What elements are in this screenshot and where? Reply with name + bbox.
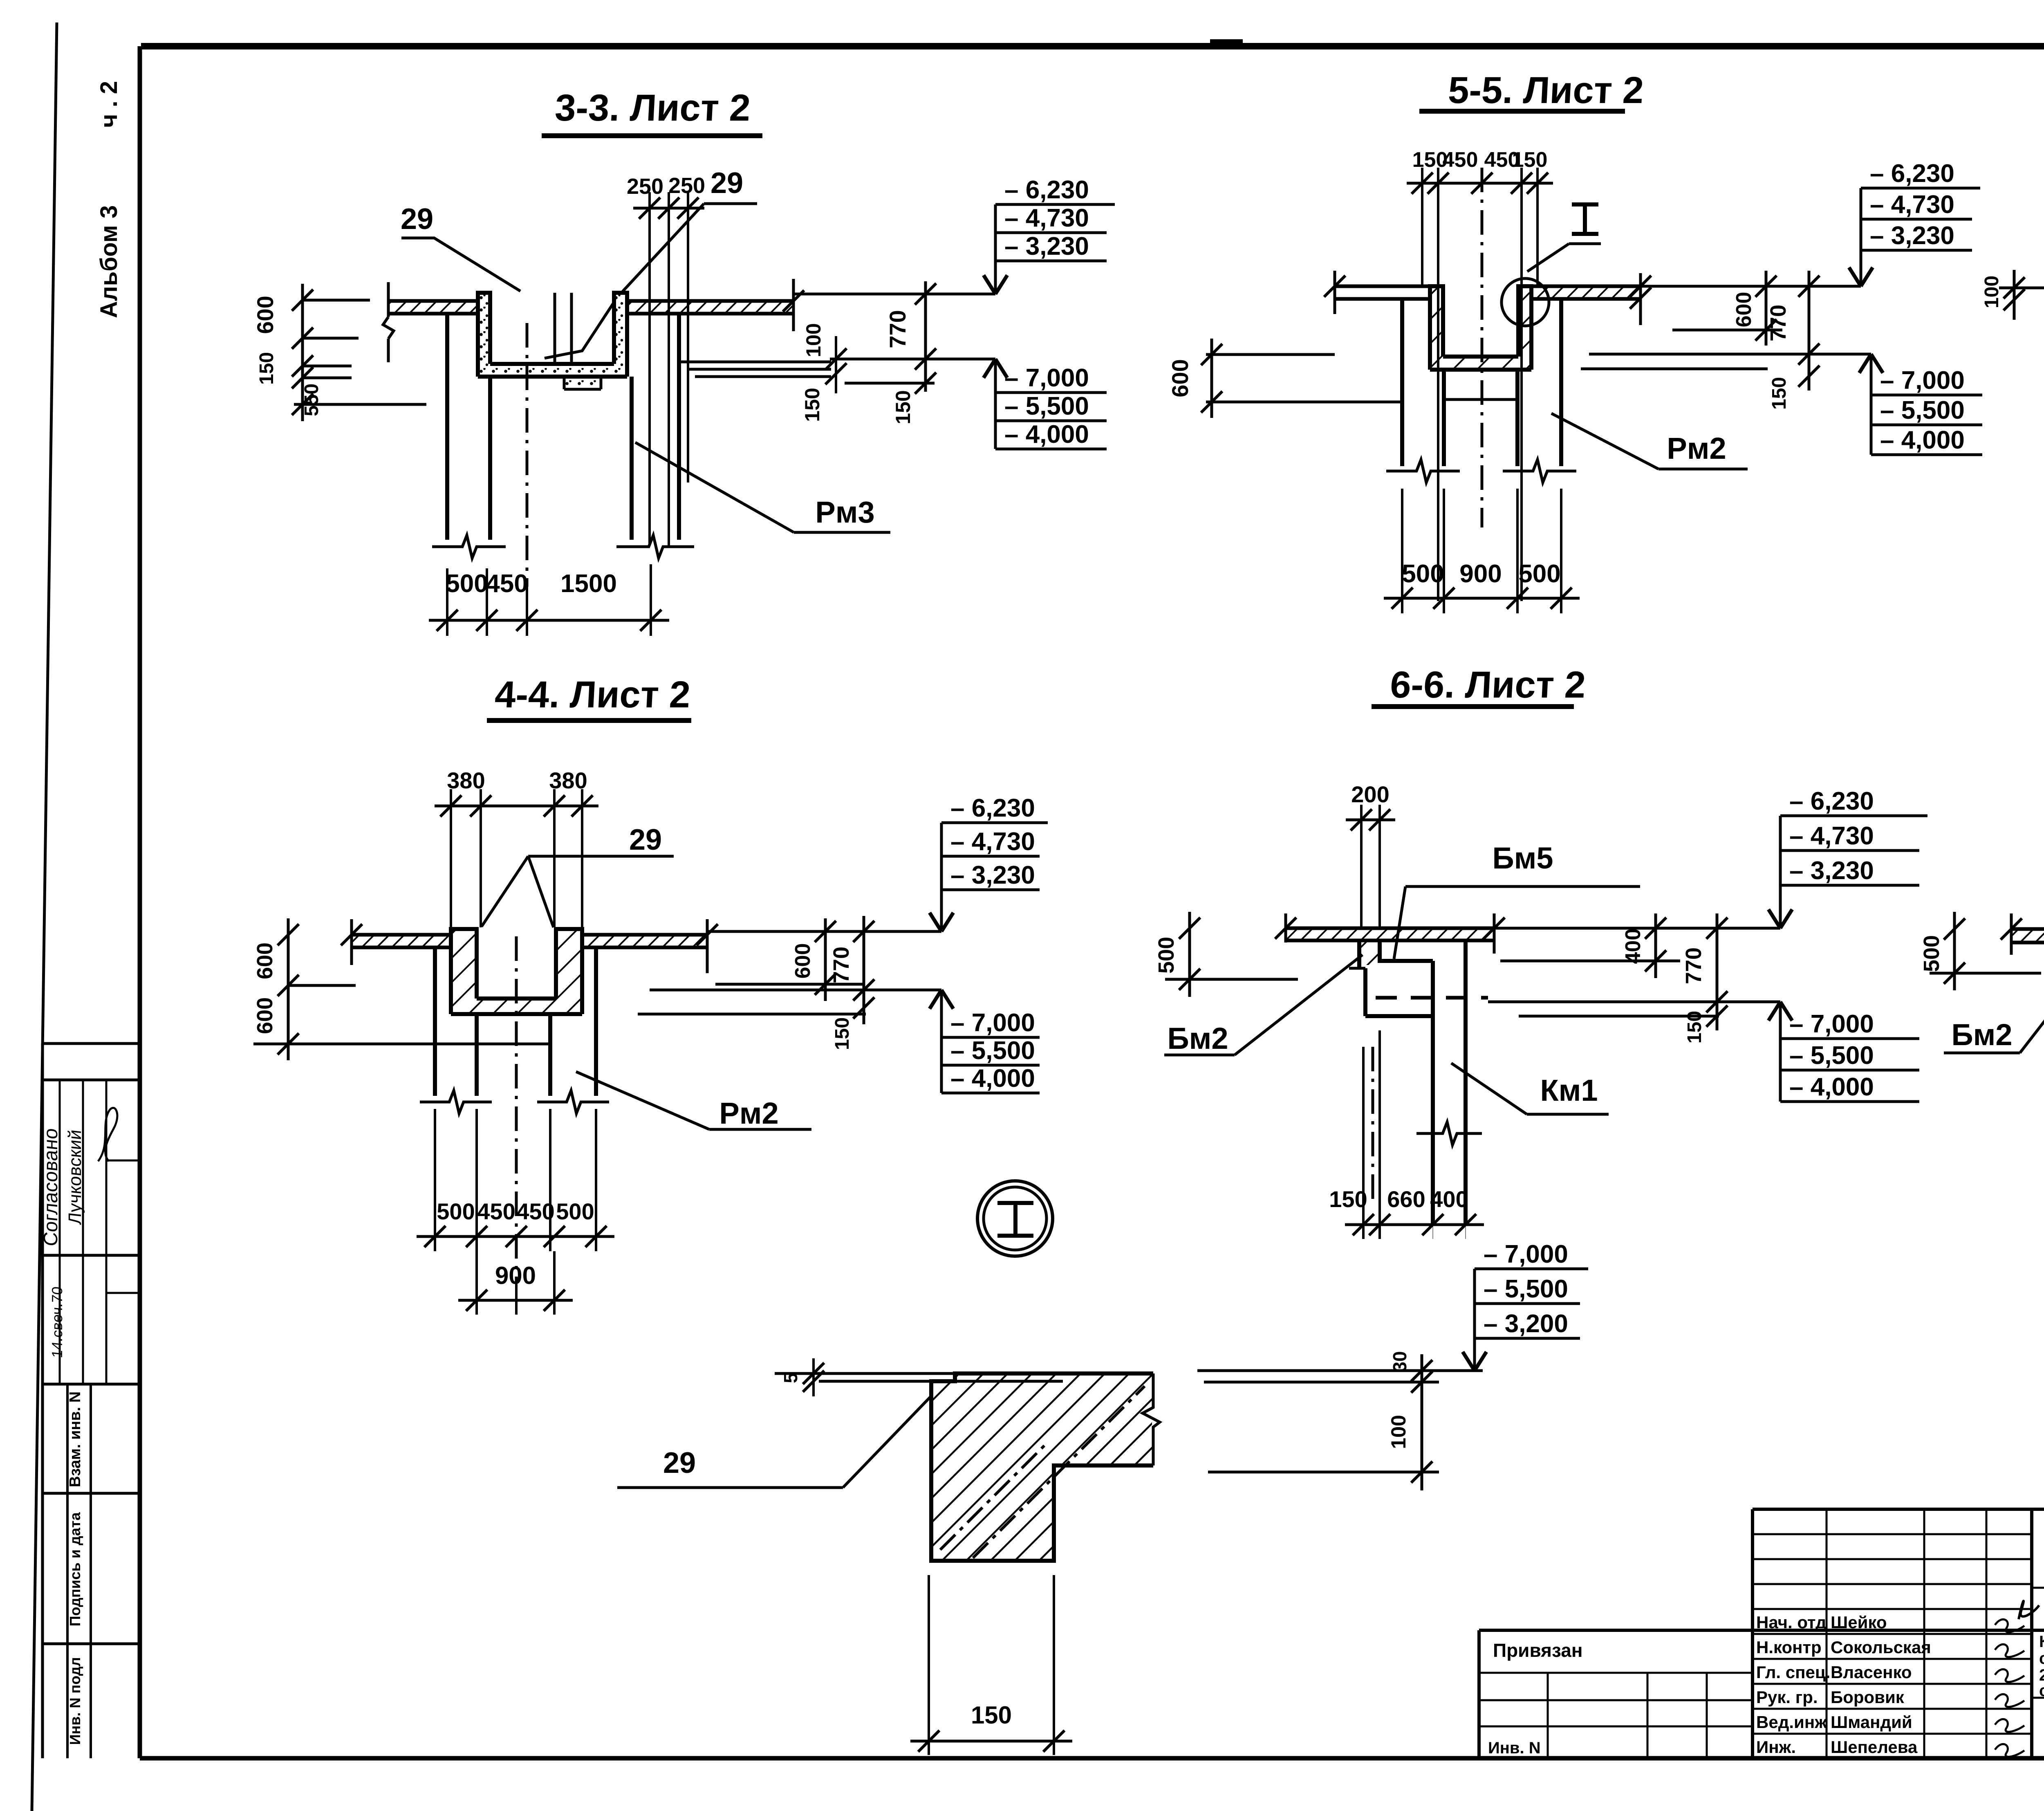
svg-text:Канализационная насосная: Канализационная насосная [2039,1633,2044,1651]
svg-text:550: 550 [301,384,323,416]
svg-text:100: 100 [1387,1415,1410,1449]
svg-text:Власенко: Власенко [1831,1663,1912,1682]
svg-text:– 5,500: – 5,500 [1484,1275,1568,1303]
svg-text:1500: 1500 [560,570,617,598]
svg-text:29: 29 [663,1447,696,1479]
svg-text:Взам. инв. N: Взам. инв. N [67,1391,84,1487]
svg-text:29: 29 [629,824,662,856]
svg-text:150: 150 [256,352,278,385]
svg-text:500: 500 [437,1198,475,1224]
svg-text:Шейко: Шейко [1831,1613,1887,1632]
svg-text:660: 660 [1387,1186,1425,1212]
svg-text:150: 150 [801,388,824,422]
svg-text:500: 500 [446,570,488,598]
svg-text:– 4,730: – 4,730 [1789,822,1874,850]
svg-text:– 4,730: – 4,730 [1004,204,1089,232]
svg-text:900: 900 [495,1262,536,1289]
svg-text:4-4. Лист 2: 4-4. Лист 2 [494,673,691,716]
svg-text:250: 250 [627,174,663,199]
svg-text:Бм2: Бм2 [1167,1021,1228,1055]
svg-text:станция производительностью: станция производительностью [2039,1649,2044,1667]
svg-text:– 3,230: – 3,230 [1789,857,1874,885]
svg-text:Шепелева: Шепелева [1831,1737,1918,1757]
svg-text:29: 29 [710,167,743,200]
svg-text:100: 100 [1981,276,2003,308]
svg-text:5: 5 [780,1373,801,1383]
svg-text:– 3,230: – 3,230 [1870,222,1954,250]
svg-text:150: 150 [1512,148,1548,172]
svg-text:– 5,500: – 5,500 [1004,392,1089,420]
svg-text:Согласовано: Согласовано [40,1127,62,1247]
svg-text:– 3,230: – 3,230 [1004,232,1089,260]
svg-text:Инв. N подл: Инв. N подл [67,1657,83,1745]
svg-text:– 7,000: – 7,000 [950,1009,1035,1037]
svg-text:– 7,000: – 7,000 [1484,1240,1568,1268]
svg-text:5-5. Лист 2: 5-5. Лист 2 [1447,69,1645,111]
svg-text:– 5,500: – 5,500 [1880,396,1965,424]
svg-text:– 4,000: – 4,000 [1880,426,1965,454]
svg-text:ч . 2: ч . 2 [96,81,122,128]
svg-text:500: 500 [1154,937,1179,974]
svg-text:400: 400 [1621,929,1645,964]
svg-text:– 4,000: – 4,000 [1004,420,1089,449]
svg-text:– 7,000: – 7,000 [1004,364,1089,392]
svg-text:600: 600 [253,943,277,979]
svg-text:600: 600 [1732,292,1756,328]
svg-text:– 6,230: – 6,230 [1789,787,1874,815]
svg-text:– 6,230: – 6,230 [1870,159,1954,188]
svg-text:Вед.инж: Вед.инж [1756,1712,1827,1732]
svg-text:Рм3: Рм3 [815,495,874,529]
svg-text:Инв. N: Инв. N [1488,1739,1541,1757]
svg-text:500: 500 [556,1198,594,1224]
svg-text:150: 150 [1768,377,1790,410]
svg-text:– 4,000: – 4,000 [1789,1073,1874,1101]
svg-text:500: 500 [1919,935,1944,972]
svg-text:Н.контр: Н.контр [1756,1638,1822,1657]
svg-text:Рук. гр.: Рук. гр. [1756,1688,1818,1707]
svg-text:– 5,500: – 5,500 [950,1037,1035,1065]
svg-text:Инж.: Инж. [1756,1737,1796,1757]
svg-text:500: 500 [1518,560,1560,588]
svg-text:150: 150 [1329,1186,1367,1212]
svg-text:Гл. спец.: Гл. спец. [1756,1663,1830,1682]
svg-text:14.свеч.70: 14.свеч.70 [49,1286,65,1359]
svg-text:450: 450 [1443,148,1478,172]
svg-text:200: 200 [1351,781,1389,807]
svg-text:Нач. отд: Нач. отд [1756,1613,1827,1632]
svg-text:450: 450 [486,570,528,598]
svg-text:– 7,000: – 7,000 [1880,366,1965,395]
svg-text:Подпись и дата: Подпись и дата [67,1512,83,1627]
svg-text:770: 770 [1681,947,1706,984]
svg-text:150: 150 [971,1701,1012,1729]
svg-text:600: 600 [1167,359,1193,397]
svg-text:Привязан: Привязан [1493,1640,1583,1661]
svg-text:– 7,000: – 7,000 [1789,1010,1874,1038]
svg-text:450: 450 [516,1198,554,1224]
svg-text:– 4,000: – 4,000 [950,1064,1035,1093]
svg-text:100: 100 [802,323,825,357]
svg-text:600: 600 [253,997,277,1034]
svg-text:600: 600 [252,296,278,334]
svg-text:30: 30 [1389,1351,1410,1372]
svg-text:Шмандий: Шмандий [1831,1712,1912,1732]
svg-text:Бм2: Бм2 [1951,1018,2012,1052]
svg-text:3-3. Лист 2: 3-3. Лист 2 [554,87,751,129]
svg-text:150: 150 [831,1017,853,1050]
svg-text:770: 770 [1766,305,1791,341]
svg-text:770: 770 [829,947,854,983]
svg-text:Сокольская: Сокольская [1831,1638,1931,1657]
svg-text:– 4,730: – 4,730 [950,828,1035,856]
svg-text:– 5,500: – 5,500 [1789,1041,1874,1070]
svg-text:– 3,200: – 3,200 [1484,1310,1568,1338]
svg-text:380: 380 [447,767,485,793]
svg-text:Лучковский: Лучковский [65,1129,85,1225]
svg-text:Рм2: Рм2 [719,1096,778,1130]
svg-text:Альбом 3: Альбом 3 [96,205,122,318]
svg-text:– 4,730: – 4,730 [1870,191,1954,219]
svg-text:Боровик: Боровик [1831,1688,1905,1707]
svg-text:600: 600 [791,943,815,979]
svg-text:– 3,230: – 3,230 [950,861,1035,889]
svg-text:150: 150 [892,390,914,424]
svg-text:29: 29 [401,203,433,236]
svg-text:400: 400 [1430,1186,1468,1212]
svg-text:900: 900 [1459,560,1502,588]
svg-text:Бм5: Бм5 [1492,841,1553,875]
svg-text:– 6,230: – 6,230 [950,794,1035,822]
svg-text:450: 450 [477,1198,515,1224]
svg-text:500: 500 [1402,560,1444,588]
svg-text:– 6,230: – 6,230 [1004,176,1089,204]
svg-text:6-6. Лист 2: 6-6. Лист 2 [1389,664,1587,706]
svg-text:770: 770 [885,310,910,348]
svg-text:Км1: Км1 [1540,1073,1598,1107]
svg-text:Рм2: Рм2 [1667,431,1726,465]
